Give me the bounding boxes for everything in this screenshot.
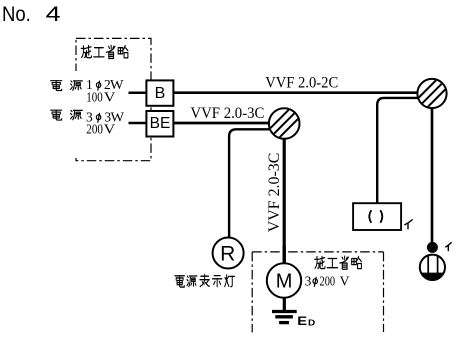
svg-text:200: 200 (86, 122, 103, 137)
label 電源 3φ3W 200V (51, 109, 125, 136)
switch イ (dot) (427, 242, 438, 253)
junction box C1 (hatched circle) (269, 108, 300, 139)
motor M (267, 263, 301, 297)
wire: C1 down to motor (283, 133, 286, 264)
svg-text:No.: No. (2, 3, 31, 26)
svg-text:B: B (155, 85, 166, 102)
wire: C2 branch to ceiling fixture box (377, 98, 424, 203)
dashed omission box (top, power source) (76, 38, 151, 160)
dashed omission box (bottom, motor) (252, 251, 383, 253)
wire: BE to junction box C1 (VVF 2.0-3C) (173, 122, 278, 125)
svg-text:200: 200 (320, 273, 336, 288)
label ED (297, 316, 315, 328)
wire: C2 down to switch (431, 100, 434, 247)
svg-text:4: 4 (46, 3, 61, 26)
svg-text:100: 100 (86, 90, 103, 105)
wire stub to breaker BE (129, 122, 147, 125)
ground symbol (272, 298, 297, 323)
svg-text:VVF 2.0-3C: VVF 2.0-3C (266, 153, 283, 233)
svg-text:E: E (297, 316, 307, 328)
svg-text:M: M (276, 270, 293, 292)
label 施工省略 (bottom) (315, 256, 362, 269)
svg-text:R: R (220, 242, 235, 265)
wire: C1 branch to lamp R (229, 129, 275, 238)
svg-text:D: D (308, 318, 315, 327)
svg-text:VVF 2.0-3C: VVF 2.0-3C (190, 105, 264, 122)
power indicator lamp R (213, 238, 244, 269)
label イ (fixture) (405, 220, 412, 229)
wire stub to breaker B (129, 91, 147, 94)
breaker B (146, 80, 173, 105)
breaker BE (146, 111, 173, 137)
svg-text:VVF 2.0-2C: VVF 2.0-2C (265, 74, 338, 91)
svg-text:3: 3 (305, 273, 312, 288)
label 電源 1φ2W 100V (51, 77, 124, 105)
wire into motor (overdraw box edge) (283, 246, 286, 264)
svg-text:BE: BE (150, 115, 171, 132)
round hook ceiling / lampholder (420, 254, 445, 281)
svg-text:V: V (104, 122, 116, 137)
square hook ceiling fixture () box (353, 203, 401, 230)
svg-text:V: V (340, 273, 350, 288)
label イ (switch) (446, 243, 451, 251)
junction box C2 (hatched circle) (417, 79, 447, 109)
wire: B to junction box C2 (VVF 2.0-2C) (173, 91, 425, 94)
label 3φ200 V (305, 273, 350, 288)
label 施工省略 (top) (81, 45, 128, 58)
label 電源表示灯 (175, 274, 235, 287)
svg-text:V: V (104, 90, 116, 105)
